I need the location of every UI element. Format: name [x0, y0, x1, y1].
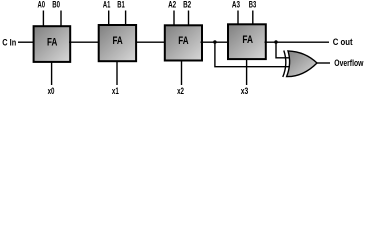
svg-text:Overflow: Overflow [334, 58, 363, 68]
wire A3 input [237, 11, 239, 25]
xor gate body [287, 51, 317, 77]
wire overflow output [317, 62, 330, 64]
svg-text:B3: B3 [249, 0, 257, 10]
svg-text:B1: B1 [117, 0, 125, 10]
full adder FA0 [34, 26, 71, 62]
svg-text:FA: FA [178, 35, 188, 47]
svg-text:A0: A0 [38, 0, 46, 10]
xor gate input arc [283, 51, 286, 78]
wire x0 output [51, 62, 53, 85]
svg-text:x1: x1 [112, 86, 119, 96]
svg-text:A2: A2 [168, 0, 176, 10]
wire FA2 to FA3 [201, 41, 229, 43]
wire x3 output [246, 59, 248, 85]
svg-text:x2: x2 [177, 86, 184, 96]
wire A2 input [173, 11, 175, 26]
junction node carry3 [213, 40, 217, 44]
svg-text:x3: x3 [241, 86, 249, 96]
wire B0 input [60, 11, 62, 27]
wire overflow top branch [276, 42, 289, 58]
svg-text:A3: A3 [232, 0, 240, 10]
wire A1 input [108, 11, 110, 26]
wire x1 output [116, 61, 118, 85]
wire B1 input [125, 11, 127, 26]
full adder FA3 [228, 24, 266, 59]
svg-text:FA: FA [242, 34, 253, 46]
wire FA0 to FA1 [69, 41, 99, 43]
wire A0 input [42, 11, 44, 27]
full adder FA2 [165, 25, 202, 60]
wire B3 input [252, 11, 254, 25]
svg-text:A1: A1 [103, 0, 111, 10]
junction node carry-out [274, 40, 278, 44]
svg-text:FA: FA [47, 37, 57, 49]
svg-text:FA: FA [112, 35, 122, 47]
svg-text:B2: B2 [183, 0, 191, 10]
wire x2 output [181, 61, 183, 86]
wire B2 input [188, 11, 190, 26]
svg-text:B0: B0 [52, 0, 60, 10]
full adder FA1 [99, 25, 136, 61]
wire FA3 to C out [265, 41, 330, 43]
svg-text:C out: C out [333, 37, 353, 47]
wire C In to FA0 [18, 41, 34, 43]
svg-text:C In: C In [2, 38, 16, 48]
wire overflow bottom branch [215, 42, 289, 66]
wire FA1 to FA2 [136, 41, 165, 43]
svg-text:x0: x0 [48, 86, 55, 96]
